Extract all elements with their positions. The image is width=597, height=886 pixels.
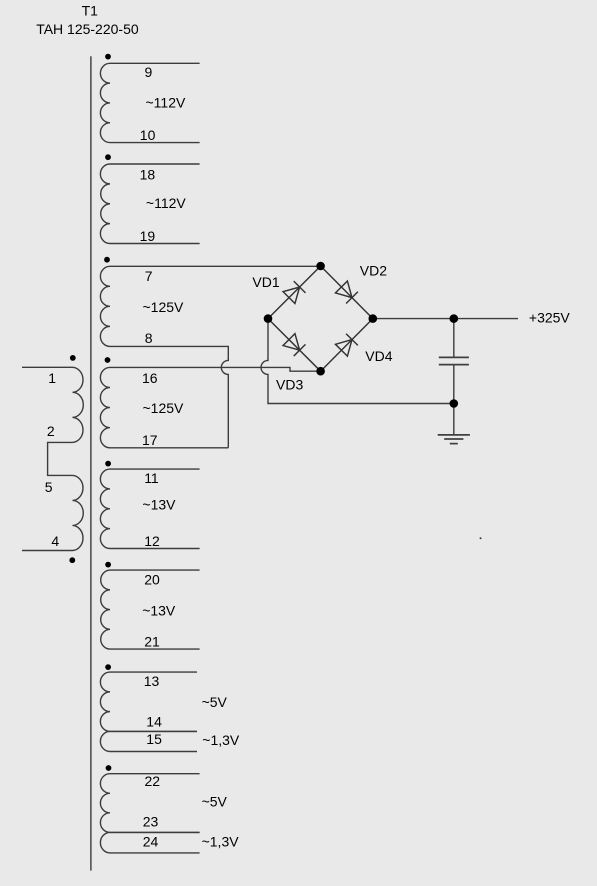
transformer T1 secondary winding 23-24 section [100, 832, 199, 853]
svg-text:5: 5 [45, 479, 53, 495]
polarity dot primary winding 5-4 [69, 557, 75, 563]
polarity dot winding 13-15 [105, 664, 111, 670]
svg-text:~13V: ~13V [142, 602, 176, 618]
svg-text:24: 24 [143, 833, 159, 849]
svg-text:~112V: ~112V [146, 94, 186, 110]
polarity dot winding 11-12 [105, 461, 111, 467]
svg-text:~125V: ~125V [143, 299, 185, 315]
transformer T1 secondary winding 16-17 [100, 367, 110, 447]
svg-text:+325V: +325V [529, 310, 571, 326]
svg-text:21: 21 [144, 634, 160, 650]
polarity dot winding 7-8 [104, 257, 110, 263]
transformer T1 secondary winding 9-10 [100, 63, 199, 142]
svg-text:10: 10 [140, 127, 156, 143]
svg-text:VD1: VD1 [252, 274, 279, 290]
capacitor C1 bottom lead [453, 365, 455, 403]
transformer T1 secondary winding 22-23 section [100, 774, 199, 833]
wire bridge side top node to right node [321, 266, 373, 319]
wire bridge side left node to top node [268, 266, 321, 319]
wire pin 7 to bridge top node [110, 265, 321, 267]
polarity dot primary winding 1-2 [70, 355, 76, 361]
svg-text:~1,3V: ~1,3V [202, 833, 240, 849]
svg-text:T1: T1 [82, 3, 99, 19]
transformer T1 core [90, 56, 92, 870]
node bridge top (AC input from pin 7) [316, 262, 325, 271]
transformer T1 secondary winding 14-15 section [100, 731, 197, 751]
svg-text:~5V: ~5V [202, 794, 228, 810]
svg-text:~1,3V: ~1,3V [202, 732, 240, 748]
wire pin 1 lead [22, 366, 73, 368]
svg-text:14: 14 [146, 714, 162, 730]
wire bridge left node down (with hop) to ground rail [261, 319, 454, 404]
diode VD1 [283, 287, 300, 304]
wire pin 2 to pin 5 [48, 442, 73, 475]
transformer T1 secondary winding 20-21 [101, 570, 200, 649]
svg-text:13: 13 [144, 673, 160, 689]
svg-text:16: 16 [142, 370, 158, 386]
svg-text:VD3: VD3 [276, 376, 303, 392]
diode VD4 [335, 340, 352, 357]
wire pin 17 lead [110, 447, 228, 449]
capacitor C1 top lead [453, 319, 455, 357]
svg-text:17: 17 [142, 432, 158, 448]
polarity dot winding 16-17 [105, 357, 111, 363]
wire bridge side bottom node to right node [321, 319, 373, 372]
svg-text:1: 1 [48, 370, 56, 386]
polarity dot winding 18-19 [105, 154, 111, 160]
svg-text:15: 15 [146, 731, 162, 747]
svg-text:~13V: ~13V [142, 497, 176, 513]
svg-text:22: 22 [145, 773, 161, 789]
svg-text:8: 8 [145, 330, 153, 346]
svg-text:4: 4 [51, 533, 59, 549]
svg-text:VD4: VD4 [365, 348, 392, 364]
svg-text:11: 11 [144, 470, 159, 486]
transformer T1 primary winding 1-2 [73, 367, 84, 442]
svg-text:2: 2 [47, 423, 55, 439]
polarity dot winding 20-21 [105, 562, 111, 568]
diode VD2 [335, 281, 352, 298]
svg-text:~125V: ~125V [143, 400, 185, 416]
svg-text:TAH 125-220-50: TAH 125-220-50 [36, 21, 139, 37]
node bridge right (positive output) [369, 314, 378, 323]
polarity dot winding 9-10 [105, 54, 111, 60]
svg-text:VD2: VD2 [360, 263, 387, 279]
node capacitor bottom junction [450, 399, 459, 408]
transformer T1 secondary winding 11-12 [100, 469, 199, 548]
svg-text:7: 7 [145, 268, 153, 284]
capacitor C1 plates [439, 356, 469, 358]
node capacitor top junction [450, 314, 459, 323]
wire bridge side left node to bottom node [268, 319, 321, 372]
transformer T1 secondary winding 7-8 [100, 266, 110, 346]
svg-text:20: 20 [144, 572, 160, 588]
svg-text:~112V: ~112V [146, 195, 186, 211]
wire pin 4 lead [22, 550, 73, 552]
node bridge bottom (AC input from pin 16) [316, 367, 325, 376]
wire bridge right node to +325V output [373, 318, 518, 320]
svg-text:18: 18 [140, 167, 156, 183]
svg-text:12: 12 [144, 533, 160, 549]
transformer T1 secondary winding 13-14 section [100, 672, 197, 731]
svg-text:19: 19 [140, 228, 156, 244]
wire pin 16 to bridge bottom node [110, 367, 321, 371]
svg-text:9: 9 [145, 64, 153, 80]
transformer T1 secondary winding 18-19 [100, 164, 199, 244]
transformer T1 primary winding 5-4 [73, 475, 84, 550]
svg-text:~5V: ~5V [202, 694, 228, 710]
node bridge left (negative output) [264, 314, 273, 323]
stray mark [480, 537, 482, 539]
wire pin 8 to pin 17 (with hop over pin 16 wire) [110, 346, 228, 447]
polarity dot winding 22-24 [106, 765, 112, 771]
ground symbol [453, 404, 455, 435]
diode VD3 [283, 334, 300, 351]
svg-text:23: 23 [143, 814, 159, 830]
